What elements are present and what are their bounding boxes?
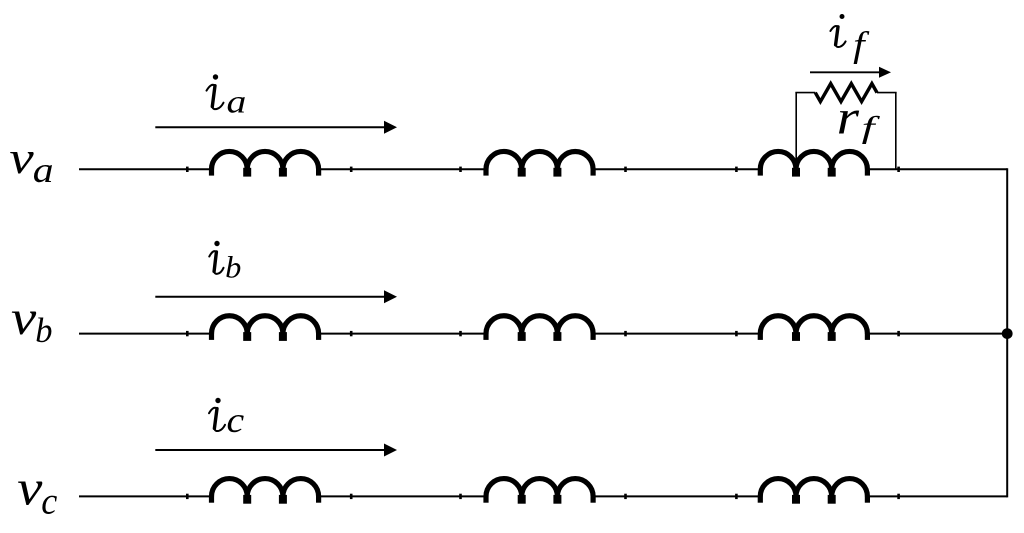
wire phase a from source to La1	[79, 168, 213, 170]
inductor Lc2	[483, 479, 595, 504]
junction tick b1	[186, 331, 189, 336]
junction tick a3	[459, 167, 462, 172]
svg-text:v: v	[11, 292, 37, 346]
current arrow i_c	[155, 444, 397, 457]
junction tick a6	[897, 167, 900, 172]
inductor Lb2	[483, 316, 595, 341]
label i_f dot	[840, 14, 845, 19]
wire r_f branch right vertical	[895, 92, 897, 169]
inductor Lb1	[209, 316, 321, 341]
resistor r_f	[815, 84, 877, 102]
node neutral junction dot	[1002, 328, 1013, 339]
inductor Lb3	[758, 316, 870, 341]
junction tick a1	[186, 167, 189, 172]
junction tick a2	[350, 167, 353, 172]
wire phase b from source to Lb1	[79, 333, 213, 335]
wire phase c from source to Lc1	[79, 495, 213, 497]
wire phase c between Lc2 and Lc3	[592, 495, 762, 497]
junction tick c1	[186, 494, 189, 499]
label i_c main	[209, 408, 225, 431]
wire phase a between La1 and La2	[317, 168, 488, 170]
junction tick b6	[897, 331, 900, 336]
wire phase c from Lc3 to right bus	[866, 495, 1007, 497]
svg-text:a: a	[33, 150, 54, 190]
svg-text:c: c	[227, 401, 245, 441]
wire r_f right lead	[877, 92, 897, 94]
wire phase a from La3 to right bus	[866, 168, 1007, 170]
inductor Lc3	[758, 479, 870, 504]
svg-text:a: a	[227, 84, 247, 120]
label i_a main	[207, 85, 224, 109]
inductor La3	[758, 151, 870, 176]
inductor La1	[209, 151, 321, 176]
svg-text:v: v	[9, 132, 34, 183]
junction tick a5	[735, 167, 738, 172]
wire right bus vertical	[1006, 168, 1008, 497]
label i_f main	[830, 26, 845, 47]
inductor La2	[483, 151, 595, 176]
junction tick c5	[735, 494, 738, 499]
junction tick b2	[350, 331, 353, 336]
inductor Lc1	[209, 479, 321, 504]
wire phase b between Lb1 and Lb2	[317, 333, 488, 335]
junction tick c2	[350, 494, 353, 499]
junction tick b4	[624, 331, 627, 336]
svg-text:r: r	[837, 92, 860, 145]
wire r_f left lead	[795, 92, 815, 94]
junction tick c3	[459, 494, 462, 499]
label i_a dot	[213, 74, 218, 79]
label i_c dot	[215, 398, 220, 403]
wire phase b between Lb2 and Lb3	[592, 333, 762, 335]
wire phase a between La2 and La3	[592, 168, 762, 170]
wire r_f branch left vertical	[795, 92, 797, 166]
current arrow i_b	[155, 290, 397, 303]
label i_b dot	[214, 241, 219, 246]
junction tick c6	[897, 494, 900, 499]
junction tick b5	[735, 331, 738, 336]
svg-text:v: v	[17, 460, 42, 516]
junction tick b3	[459, 331, 462, 336]
junction tick a4	[624, 167, 627, 172]
current arrow i_f	[810, 67, 891, 78]
wire phase b from Lb3 to right bus	[866, 333, 1007, 335]
svg-text:b: b	[225, 250, 241, 284]
junction tick c4	[624, 494, 627, 499]
current arrow i_a	[155, 121, 397, 134]
svg-text:b: b	[35, 312, 52, 350]
wire phase c between Lc1 and Lc2	[317, 495, 488, 497]
svg-text:c: c	[41, 481, 58, 523]
label i_b main	[209, 251, 223, 274]
